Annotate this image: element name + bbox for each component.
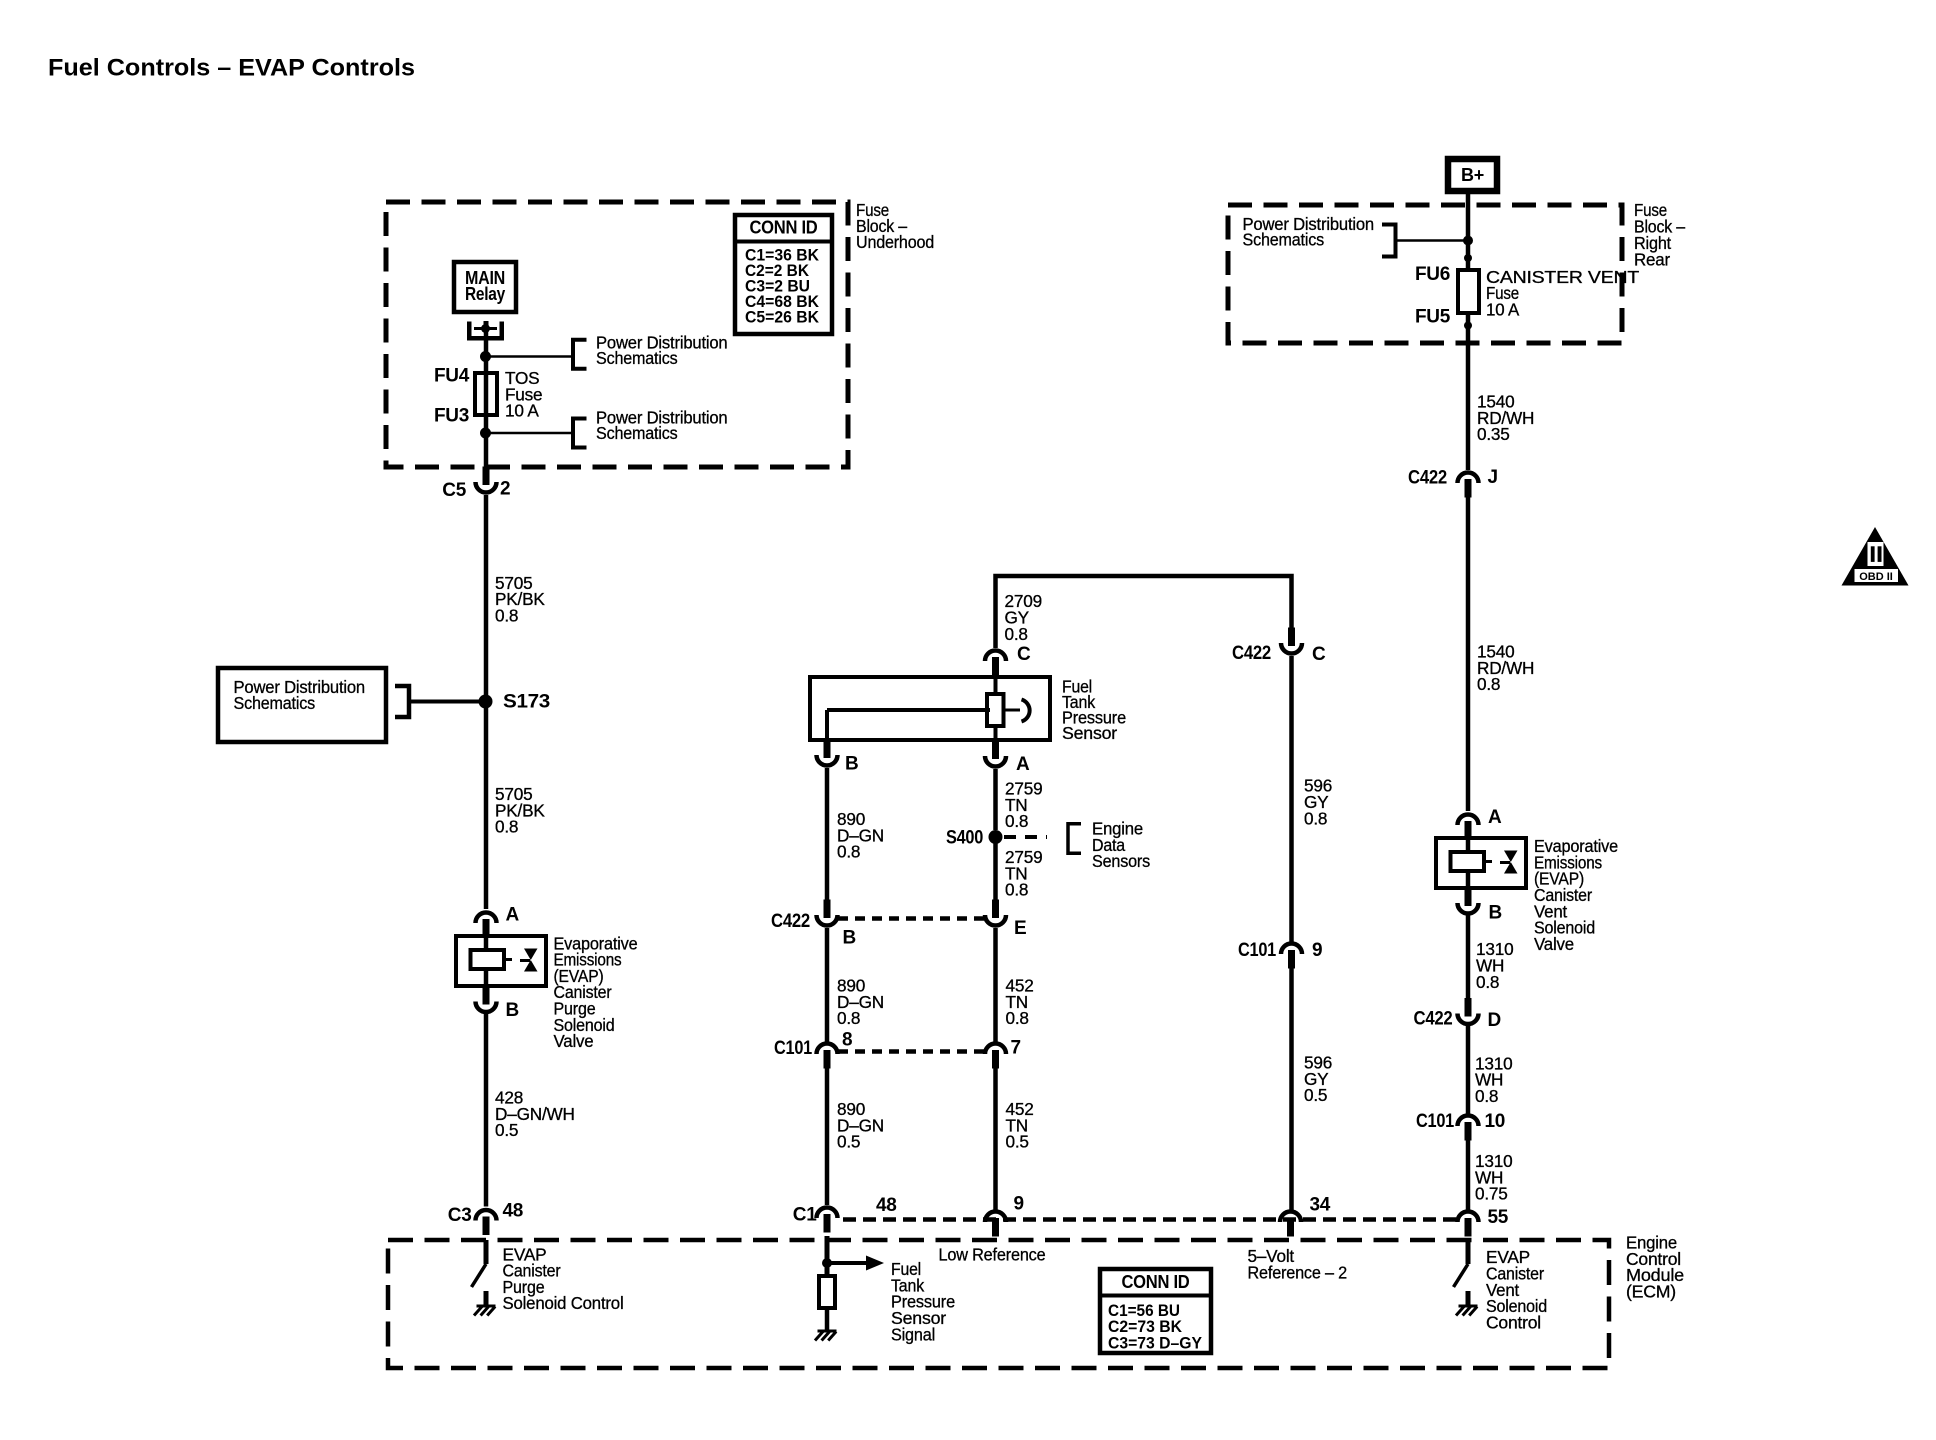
svg-text:E: E (1014, 918, 1026, 939)
arrow fuel tank pressure sensor signal (827, 1261, 868, 1265)
wire 452 TN lower (993, 1068, 998, 1210)
connector C (fuel tank pressure sensor) (992, 657, 999, 676)
wire 428 D-GN/WH (484, 1014, 489, 1207)
svg-text:0.8: 0.8 (1477, 674, 1500, 694)
CONN ID table (fuse block underhood) (735, 215, 832, 334)
svg-text:10: 10 (1485, 1111, 1506, 1132)
svg-text:34: 34 (1310, 1195, 1331, 1216)
fuse block - right rear (dashed box) (1228, 205, 1622, 343)
connector C1 pin 48 (824, 1214, 831, 1233)
wire 452 TN upper (993, 928, 998, 1042)
svg-text:48: 48 (876, 1195, 897, 1216)
connector C422 pin D (1465, 998, 1472, 1017)
fuse block - underhood (dashed box) (386, 202, 848, 467)
connector A (vent valve) (1465, 821, 1472, 840)
wire bracket to B+ wire (1396, 239, 1469, 242)
splice S173 (479, 695, 493, 709)
svg-text:C5: C5 (442, 480, 466, 501)
svg-text:0.8: 0.8 (1304, 808, 1327, 828)
svg-text:CONN ID: CONN ID (750, 218, 818, 238)
svg-text:S173: S173 (503, 692, 550, 713)
svg-text:Sensor: Sensor (1062, 723, 1117, 743)
svg-text:C: C (1017, 644, 1031, 665)
connector A (sensor) (992, 741, 999, 760)
power distribution schematics reference box (218, 668, 386, 742)
svg-text:A: A (1488, 807, 1502, 828)
svg-text:0.8: 0.8 (1005, 880, 1028, 900)
connector C422 dashed link (838, 916, 985, 921)
svg-text:C101: C101 (1238, 940, 1277, 961)
svg-text:Underhood: Underhood (856, 232, 934, 252)
sensor element (987, 694, 1004, 726)
svg-text:Schematics: Schematics (596, 423, 678, 443)
svg-text:FU4: FU4 (434, 366, 470, 387)
svg-text:0.8: 0.8 (1005, 624, 1028, 644)
connector B (sensor) (824, 740, 831, 759)
svg-text:OBD II: OBD II (1859, 571, 1893, 583)
wire 2759 TN upper (993, 769, 998, 830)
svg-text:Reference – 2: Reference – 2 (1248, 1262, 1348, 1282)
svg-text:B: B (506, 1000, 519, 1021)
svg-text:0.8: 0.8 (1476, 972, 1499, 992)
svg-text:9: 9 (1312, 940, 1322, 961)
svg-text:(ECM): (ECM) (1626, 1281, 1676, 1301)
wire 1310 WH middle (1466, 1026, 1471, 1114)
svg-text:9: 9 (1014, 1194, 1024, 1215)
svg-text:0.5: 0.5 (1304, 1085, 1327, 1105)
svg-text:Signal: Signal (891, 1324, 935, 1344)
svg-text:0.5: 0.5 (1006, 1132, 1029, 1152)
connector B (purge valve) (483, 986, 490, 1005)
fuse terminal dot (1464, 322, 1472, 330)
wire 596 GY upper (1289, 656, 1294, 942)
wire 5705 PK/BK lower (484, 702, 489, 910)
svg-text:0.35: 0.35 (1477, 424, 1510, 444)
junction (822, 1258, 832, 1268)
svg-text:0.8: 0.8 (837, 842, 860, 862)
wire 890 D-GN lower (825, 1068, 830, 1205)
splice S400 (989, 830, 1003, 844)
svg-text:0.8: 0.8 (1006, 1008, 1029, 1028)
ECM pin 55 connector (1465, 1218, 1472, 1237)
wire branch to power distribution (top) (486, 355, 573, 358)
svg-text:C101: C101 (1416, 1111, 1455, 1132)
svg-text:0.75: 0.75 (1475, 1184, 1508, 1204)
off-page bracket (395, 686, 409, 717)
component fuel tank pressure sensor box (810, 677, 1050, 740)
svg-text:0.8: 0.8 (495, 817, 518, 837)
wire to ground (825, 1308, 830, 1331)
svg-text:10 A: 10 A (1486, 300, 1520, 320)
svg-text:0.8: 0.8 (1005, 811, 1028, 831)
svg-text:C3=73 D–GY: C3=73 D–GY (1108, 1333, 1203, 1352)
ground (818, 1330, 837, 1333)
connector C422 pin C (1288, 628, 1295, 647)
svg-text:Valve: Valve (554, 1031, 594, 1051)
svg-text:A: A (1016, 754, 1030, 775)
svg-text:A: A (506, 905, 520, 926)
connector C101 dashed link (838, 1049, 985, 1054)
connector C101 pin 8 (824, 1050, 831, 1069)
wire branch to power distribution (bottom) (486, 432, 573, 435)
driver switch EVAP canister vent solenoid control (1466, 1240, 1471, 1264)
svg-text:C422: C422 (1232, 643, 1271, 664)
OBD II marker (1842, 527, 1909, 586)
wire 890 D-GN upper (825, 768, 830, 902)
wire sensor signal inside ECM (825, 1236, 830, 1276)
engine control module ECM (dashed box) (388, 1240, 1609, 1368)
svg-text:FU5: FU5 (1415, 307, 1451, 328)
svg-text:Schematics: Schematics (234, 693, 316, 713)
svg-text:Solenoid Control: Solenoid Control (503, 1293, 624, 1313)
off-page bracket (1382, 225, 1396, 257)
connector B (vent valve) (1465, 888, 1472, 907)
solenoid valve EVAP canister purge (456, 936, 546, 986)
fuse FU6/FU5 CANISTER VENT 10A (1458, 270, 1479, 313)
ECM connector C1 dashed line (843, 1217, 1456, 1222)
svg-text:C101: C101 (774, 1038, 813, 1059)
svg-text:0.8: 0.8 (495, 605, 518, 625)
svg-text:C422: C422 (1414, 1009, 1453, 1030)
dashed link to engine data sensors (1004, 835, 1047, 839)
svg-text:0.5: 0.5 (837, 1132, 860, 1152)
wire 1540 RD/WH upper (1466, 313, 1471, 470)
junction (1463, 236, 1473, 246)
wire 1310 WH 0.75 (1466, 1140, 1471, 1210)
resistor (sensor signal load) (819, 1276, 835, 1308)
relay pin bracket (467, 322, 472, 341)
svg-text:C5=26 BK: C5=26 BK (745, 308, 820, 327)
svg-text:FU3: FU3 (434, 406, 469, 427)
connector C3 pin 48 (483, 1217, 490, 1236)
connector C101 pin 10 (1465, 1122, 1472, 1141)
driver switch EVAP canister purge solenoid control (484, 1240, 489, 1264)
svg-text:C: C (1312, 644, 1326, 665)
solenoid valve EVAP canister vent (1436, 838, 1526, 888)
ECM pin 9 connector (992, 1218, 999, 1237)
svg-text:D: D (1488, 1010, 1501, 1031)
svg-text:B: B (843, 928, 856, 949)
relay MAIN Relay (454, 262, 516, 312)
svg-text:10 A: 10 A (505, 401, 539, 421)
junction (480, 428, 491, 439)
connector C422 pin B (824, 900, 831, 919)
connector C101 pin 7 (992, 1050, 999, 1069)
svg-text:B+: B+ (1461, 165, 1484, 185)
svg-text:0.8: 0.8 (837, 1008, 860, 1028)
svg-text:Rear: Rear (1634, 250, 1670, 270)
wire 1310 WH upper (1466, 915, 1471, 1001)
svg-text:2: 2 (500, 479, 510, 500)
svg-text:C3: C3 (448, 1205, 472, 1226)
connector C101 pin 9 (1288, 950, 1295, 969)
wire 596 GY lower (1289, 968, 1294, 1210)
off-page bracket (1068, 824, 1081, 854)
connector A (purge valve) (483, 919, 490, 938)
connector C422 pin E (992, 900, 999, 919)
fuse terminal dot (1464, 254, 1472, 262)
svg-text:0.8: 0.8 (1475, 1086, 1498, 1106)
svg-text:FU6: FU6 (1415, 264, 1450, 285)
svg-text:55: 55 (1488, 1207, 1509, 1228)
junction (480, 351, 491, 362)
wire 2759 TN lower (993, 837, 998, 902)
svg-text:CONN ID: CONN ID (1122, 1272, 1190, 1292)
svg-text:S400: S400 (946, 828, 983, 849)
wire 1540 RD/WH lower (1466, 497, 1471, 811)
ECM pin 34 connector (1287, 1218, 1294, 1237)
svg-text:Control: Control (1486, 1312, 1541, 1332)
connector C5 pin 2 (483, 467, 490, 486)
svg-text:C422: C422 (1408, 468, 1447, 489)
svg-text:Low Reference: Low Reference (939, 1245, 1046, 1265)
svg-text:8: 8 (842, 1030, 852, 1051)
svg-text:7: 7 (1011, 1038, 1021, 1059)
svg-text:B: B (845, 754, 858, 775)
fuse FU4/FU3 TOS 10A (475, 373, 497, 415)
wire 890 D-GN middle (825, 928, 830, 1042)
wire bracket to S173 (409, 700, 486, 704)
svg-text:C422: C422 (771, 911, 810, 932)
off-page bracket (573, 340, 587, 369)
wire MAIN Relay to C5 (484, 328, 489, 467)
CONN ID table (ECM) (1100, 1269, 1211, 1353)
svg-text:Fuel Controls – EVAP Controls: Fuel Controls – EVAP Controls (48, 55, 415, 82)
svg-text:Sensors: Sensors (1092, 851, 1150, 871)
wire 5705 PK/BK upper (484, 495, 489, 702)
wire sensor internal (994, 677, 998, 694)
svg-text:C1: C1 (793, 1205, 817, 1226)
svg-text:Schematics: Schematics (1243, 230, 1325, 250)
svg-text:J: J (1488, 467, 1498, 488)
connector C422 pin J (1465, 479, 1472, 498)
svg-text:B: B (1489, 903, 1502, 924)
off-page bracket (573, 419, 587, 448)
svg-text:Schematics: Schematics (596, 348, 678, 368)
svg-text:0.5: 0.5 (495, 1120, 518, 1140)
svg-text:Valve: Valve (1534, 934, 1574, 954)
battery feed B+ (1448, 159, 1497, 191)
wire top harness (sensor C to C422-C) (996, 576, 1292, 648)
wire B+ to fuse block (1466, 191, 1471, 272)
svg-text:Relay: Relay (465, 284, 505, 304)
svg-text:48: 48 (503, 1201, 524, 1222)
